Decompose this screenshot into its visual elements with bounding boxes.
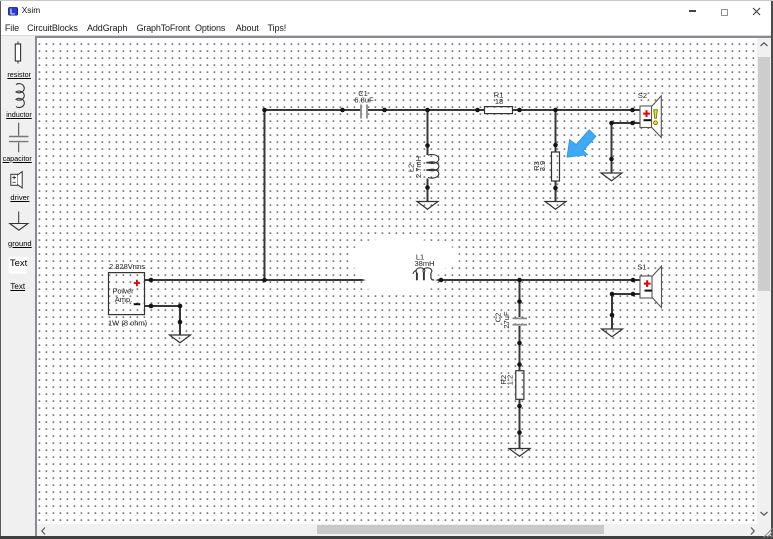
resistor R3 (552, 152, 560, 181)
junction riser bottom (263, 278, 268, 283)
ground tool icon (10, 212, 28, 231)
svg-text:S1: S1 (638, 262, 647, 271)
wire amp minus horizontal (145, 305, 181, 307)
junction amp plus pin (149, 278, 154, 283)
junction R3 pin1 (554, 143, 559, 148)
svg-text:2.7mH: 2.7mH (414, 156, 423, 178)
wire amp minus vertical to ground (179, 306, 181, 335)
wire C1 to R1 (368, 109, 485, 111)
cursor arrow (567, 130, 596, 158)
junction node in top (263, 108, 268, 113)
junction S2 minus pin (631, 121, 636, 126)
wire S2 minus horizontal (612, 122, 641, 124)
capacitor C2 (513, 318, 528, 324)
junction S1 minus pin (631, 292, 636, 297)
wire L2 branch upper (427, 110, 429, 155)
junction R3 top (554, 108, 559, 113)
wire R1 to S2 plus (513, 109, 641, 111)
svg-text:18: 18 (495, 97, 503, 106)
junction R3 pin2 (554, 186, 559, 191)
driver S2 (640, 96, 661, 138)
wire R3 branch upper (555, 110, 557, 152)
junction C1 pin1 (341, 108, 346, 113)
junction R2 ground wire (518, 430, 523, 435)
ground G4 (amp) (170, 335, 191, 343)
resistor R1 (485, 107, 513, 114)
ground G5 (S1) (602, 329, 623, 337)
wire amp plus to L1 (145, 279, 413, 281)
wire C2 to R2 (519, 326, 521, 371)
junction R2 pin1 (518, 362, 523, 367)
junction C2 pin2 (518, 341, 523, 346)
driver tool icon (11, 172, 22, 188)
ground G2 (R3) (545, 202, 566, 210)
resistor tool icon (15, 42, 20, 64)
wire L2 branch lower to ground (427, 179, 429, 202)
wire S1 minus vertical to ground (611, 294, 613, 329)
junction amp ground wire (178, 320, 183, 325)
wire L1 to S1 plus (433, 279, 641, 281)
ground G1 (L2) (417, 202, 438, 210)
inductor tool icon (16, 84, 24, 108)
svg-text:6.8uF: 6.8uF (355, 96, 375, 105)
wire R2 to ground (519, 399, 521, 449)
wire C2 branch top lead (519, 280, 521, 317)
junction L2 pin1 (426, 143, 431, 148)
wire net1 top: node in to C1 (265, 109, 361, 111)
junction R1 pin1 (476, 108, 481, 113)
junction S2 minus corner (610, 121, 615, 126)
svg-text:27uF: 27uF (502, 311, 511, 329)
junction C2 pin1 (518, 299, 523, 304)
ground G3 (S2) (601, 173, 622, 181)
inductor L1 (413, 268, 434, 280)
junction L1 pin2 (439, 278, 444, 283)
Text tool button (9, 257, 27, 274)
wire S2 minus vertical to ground (611, 123, 613, 173)
junction C2 top node (518, 278, 523, 283)
junction S1 minus corner (610, 292, 615, 297)
junction amp minus corner (178, 304, 183, 309)
wire input riser (264, 110, 266, 280)
inductor L2 (427, 154, 440, 178)
wire S1 minus horizontal (612, 293, 641, 295)
resistor R2 (516, 371, 524, 400)
svg-text:38mH: 38mH (415, 259, 435, 268)
junction S1 plus pin (631, 278, 636, 283)
junction R2 pin2 (518, 404, 523, 409)
junction L2 top (426, 108, 431, 113)
junction L2 pin2 (426, 185, 431, 190)
wire R3 branch lower to ground (555, 181, 557, 202)
svg-text:S2: S2 (638, 91, 647, 100)
power amp U1 (109, 273, 145, 315)
capacitor C1 (361, 105, 367, 119)
junction S1 ground wire (610, 313, 615, 318)
junction S2 plus pin (631, 108, 636, 113)
junction S2 ground wire (610, 157, 615, 162)
svg-text:Amp.: Amp. (115, 295, 133, 304)
svg-text:1.2: 1.2 (506, 375, 515, 385)
junction amp minus pin (149, 304, 154, 309)
svg-text:1W (8 ohm): 1W (8 ohm) (108, 318, 148, 327)
ground G6 (R2) (509, 449, 530, 457)
capacitor tool icon (9, 123, 28, 153)
junction R1 pin2 (518, 108, 523, 113)
svg-text:2.828Vrms: 2.828Vrms (109, 262, 145, 271)
svg-text:3.9: 3.9 (538, 161, 547, 171)
white eraser blob (352, 236, 459, 293)
junction C1 pin2 (383, 108, 388, 113)
driver S1 (640, 266, 662, 307)
